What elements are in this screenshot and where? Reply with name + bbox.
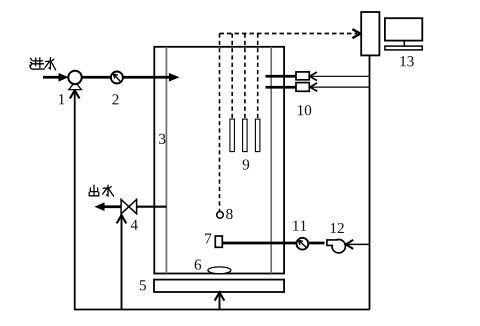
arrow outlet — [103, 205, 121, 208]
label 13 — [400, 56, 413, 66]
label 5 — [140, 280, 146, 290]
valve 4 — [121, 200, 137, 214]
dashed signal line electrode c — [257, 34, 259, 120]
label 12 — [331, 223, 344, 233]
arrow inlet — [43, 76, 60, 79]
tank 3 inner wall left — [165, 47, 167, 274]
blower 12 — [327, 240, 346, 253]
arrow into box 10b — [310, 86, 369, 88]
tank 3 inner wall right — [270, 47, 272, 274]
electrode 9b — [243, 119, 248, 152]
dashed signal line horizontal to converter — [220, 33, 358, 35]
sensor 8 (DO probe) — [217, 212, 224, 219]
computer 13 stand — [403, 41, 405, 47]
junction box 10b — [296, 83, 309, 92]
sampler 7 — [215, 236, 222, 247]
valve 4 drain line — [121, 215, 123, 310]
wire sampler7 to flowmeter 11 — [222, 242, 297, 245]
electrode 9a — [230, 119, 235, 152]
dosing line upper: tank to box 10a — [266, 75, 297, 78]
label 11 — [293, 221, 306, 231]
label 1 — [59, 94, 64, 104]
水 — [103, 185, 114, 196]
label 2 — [112, 94, 118, 104]
pump P1 base triangle — [69, 82, 82, 90]
dashed signal line sensor 8 — [219, 34, 221, 212]
aerator 6 — [208, 267, 231, 274]
wire pump1 to flowmeter2 — [82, 76, 112, 79]
junction box 10a — [296, 72, 309, 80]
label 3 — [159, 134, 165, 144]
arrow up into valve 4 — [117, 215, 127, 223]
label 6 — [195, 260, 202, 270]
label 8 — [226, 209, 232, 219]
label 4 — [131, 220, 138, 230]
wire valve4 to tank — [136, 206, 166, 208]
label 7 — [205, 234, 211, 244]
dosing line lower: tank to box 10b — [266, 86, 297, 89]
水 — [45, 58, 56, 70]
arrow air inlet into blower 12 — [347, 243, 370, 245]
arrow into box 10a — [310, 75, 370, 77]
dashed signal line electrode b — [244, 34, 246, 120]
arrow up into plate 5 — [215, 292, 225, 300]
wire right vertical from converter — [369, 55, 371, 309]
computer 13 monitor screen — [385, 18, 422, 40]
computer 13 base — [385, 46, 422, 50]
dashed signal line electrode a — [231, 34, 233, 120]
wire flowmeter11 to blower12 — [308, 242, 324, 245]
base plate 5 — [154, 280, 284, 292]
label 9 — [243, 159, 249, 169]
electrode 9c — [255, 119, 260, 152]
wire up into base plate 5 — [219, 293, 221, 310]
arrow up into pump 1 — [70, 90, 80, 98]
出 — [89, 185, 99, 196]
pump P1 body — [68, 71, 81, 84]
arrow flowmeter2 into tank — [123, 76, 171, 79]
converter box (signal conditioner) — [361, 12, 379, 55]
tank 3 outer shell — [154, 47, 284, 274]
进 — [32, 58, 44, 68]
wire bottom return line — [75, 91, 370, 310]
flowmeter 2 — [111, 72, 123, 84]
label 10 — [298, 105, 311, 115]
label 出水 (outlet water) — [89, 185, 113, 196]
label 进水 (inlet water) — [30, 58, 56, 70]
flowmeter 11 — [297, 238, 309, 250]
